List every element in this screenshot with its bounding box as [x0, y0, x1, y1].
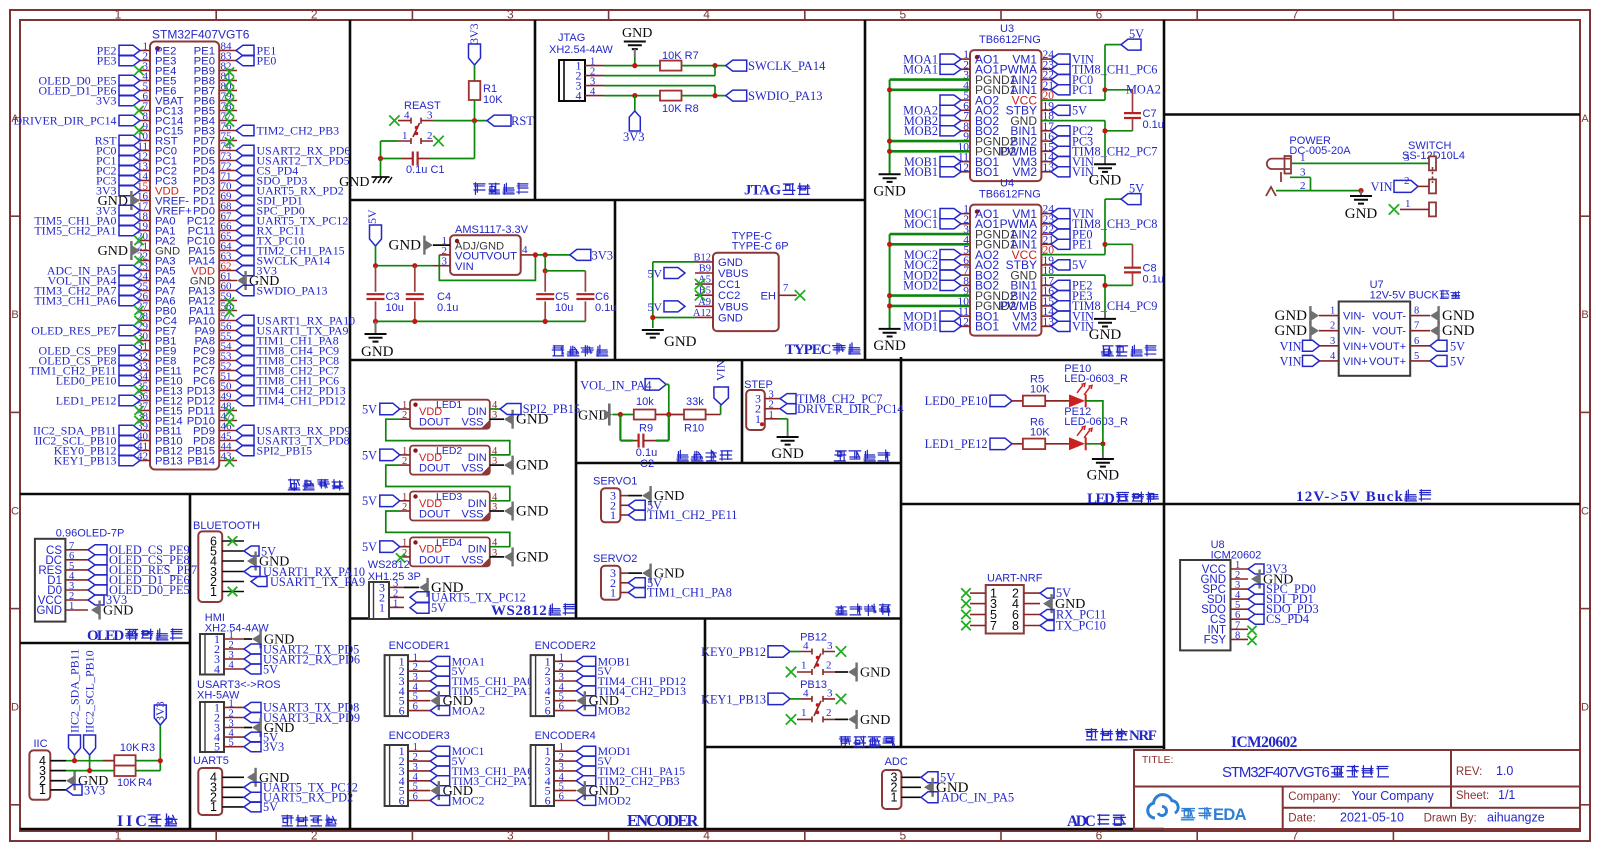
section label reset-circuit: [474, 183, 485, 195]
wire flag to PB12 pin4: [790, 651, 801, 653]
wire U4 GND pin: [1041, 274, 1105, 276]
ENCODER2 pin1 net flag MOB1: [576, 656, 596, 666]
svg-text:GND: GND: [578, 408, 608, 423]
U7 pin 1 VIN-: [1319, 315, 1339, 317]
U1 pin 56 net flag USART1_TX_PA9: [236, 325, 254, 336]
svg-text:4: 4: [229, 660, 235, 671]
svg-text:VOUT-: VOUT-: [1372, 326, 1406, 338]
svg-text:0.1u: 0.1u: [437, 302, 458, 314]
resistor R8: [660, 91, 682, 101]
svg-text:5V: 5V: [263, 662, 278, 676]
U7 pin6 5V flag: [1430, 340, 1447, 351]
U1 pin 44 net flag SPI2_PB15: [236, 445, 254, 456]
svg-text:GND: GND: [1442, 323, 1475, 339]
svg-text:1: 1: [39, 783, 46, 797]
U4 left net flags: [940, 209, 961, 219]
junction PGND U3 b: [887, 139, 892, 144]
junction SDA: [72, 758, 77, 763]
svg-text:4: 4: [803, 640, 809, 652]
svg-text:MOA2: MOA2: [452, 704, 486, 718]
ADC pin1 net flag ADC_IN_PA5: [921, 792, 938, 803]
svg-text:TB6612FNG: TB6612FNG: [979, 189, 1041, 201]
svg-text:LED2: LED2: [436, 445, 462, 457]
WS2812 connector pin3 GND: [404, 586, 419, 588]
svg-text:3V3: 3V3: [84, 783, 105, 797]
svg-text:3V3: 3V3: [96, 94, 117, 108]
U8 pin 5 net flag SDO_PD3: [1248, 604, 1264, 614]
svg-text:VSS: VSS: [461, 463, 483, 475]
svg-text:GND: GND: [1345, 206, 1378, 222]
ground GND (LED indicator): [1102, 454, 1104, 459]
ENCODER3 pin5 GND flag: [430, 786, 438, 796]
U1 pin 28 no-connect: [134, 316, 143, 325]
svg-text:XH2.54-4AW: XH2.54-4AW: [549, 44, 613, 56]
svg-text:4: 4: [576, 89, 582, 103]
svg-text:VSS: VSS: [461, 417, 483, 429]
UART-NRF pin4 GND flag: [1043, 599, 1051, 609]
no-connect X PB12 pin1: [786, 667, 796, 677]
U1 pin 72 net flag CS_PD4: [236, 165, 254, 176]
U1 pin 35 no-connect: [134, 386, 143, 395]
U3 PGND wires to ground: [890, 78, 970, 81]
no-connect X U8 pin 8: [1247, 636, 1256, 645]
svg-text:10K: 10K: [1030, 426, 1050, 438]
svg-text:0.1u: 0.1u: [1143, 273, 1164, 285]
svg-text:ENCODER2: ENCODER2: [535, 640, 596, 652]
ENCODER1 pin6 net flag MOA2: [430, 706, 450, 716]
svg-text:GND: GND: [1089, 327, 1122, 343]
U1 pin 20 no-connect: [134, 236, 143, 245]
svg-text:GND: GND: [516, 458, 549, 474]
ENCODER4 pin2 net flag 5V: [576, 756, 596, 766]
wire LED2 DOUT daisy chain: [386, 465, 510, 501]
U1 pin 60 net flag SWDIO_PA13: [236, 285, 254, 296]
U1 pin 41 net flag KEY0_PB12: [119, 445, 140, 456]
svg-text:3: 3: [427, 110, 433, 122]
LED2 VSS wire to GND: [490, 464, 504, 466]
UART-NRF pin 3 (left): [970, 603, 986, 605]
wire 5V down to rail: [375, 246, 377, 266]
svg-text:TX_PC10: TX_PC10: [1056, 619, 1106, 633]
svg-text:5V: 5V: [1072, 104, 1087, 118]
svg-text:GND: GND: [873, 183, 906, 199]
U1 right pin numbers 84-43: [221, 41, 233, 463]
svg-text:1: 1: [1330, 306, 1335, 317]
junction gnd rail C3: [373, 319, 378, 324]
svg-text:3: 3: [1404, 152, 1410, 164]
U8 pin 1 net flag 3V3: [1248, 564, 1264, 574]
OLED pin 5 net flag OLED_RES_PE7: [88, 565, 107, 575]
ground GND (LDO): [365, 334, 387, 342]
resistor R4: [114, 766, 135, 776]
svg-text:12V->5V Buck: 12V->5V Buck: [1296, 489, 1403, 505]
svg-text:JTAG: JTAG: [558, 32, 585, 44]
junction node RST: [472, 118, 477, 123]
U1 pin 30 no-connect: [134, 336, 143, 345]
svg-text:7: 7: [783, 283, 788, 294]
U1 pin 19 net flag TIM5_CH2_PA1: [119, 225, 140, 236]
ENCODER3 pin6 net flag MOC2: [430, 796, 450, 806]
wire TYPE-C gnd vertical: [652, 262, 654, 328]
net flag RST: [487, 115, 511, 126]
svg-text:VM2: VM2: [1012, 320, 1037, 334]
wire daisy chain into LED4 DIN: [490, 546, 510, 548]
junction SWDIO: [712, 93, 717, 98]
svg-text:6: 6: [1414, 336, 1419, 347]
svg-text:MOC2: MOC2: [452, 794, 485, 808]
svg-text:VSS: VSS: [461, 509, 483, 521]
svg-text:LED1_PE12: LED1_PE12: [56, 394, 117, 408]
WS2812 connector pin2 UART5_TX_PC12: [410, 592, 429, 603]
svg-text:5V: 5V: [1450, 355, 1465, 369]
svg-text:AMS1117-3.3V: AMS1117-3.3V: [455, 224, 529, 236]
svg-text:TIM1_CH1_PA8: TIM1_CH1_PA8: [647, 586, 732, 600]
junction (JTAG pin1/GND): [632, 63, 637, 68]
wire R3 to 3V3: [136, 760, 161, 762]
wire U3 cap branch: [1105, 89, 1133, 91]
power flag 5V (LED4): [380, 541, 400, 553]
svg-text:10u: 10u: [386, 302, 404, 314]
svg-text:VIN: VIN: [455, 261, 474, 273]
U1 pin 10 net flag RST: [119, 135, 140, 146]
U1 pin 48 no-connect: [225, 407, 234, 416]
svg-text:5V: 5V: [362, 494, 377, 508]
resistor R7: [660, 61, 682, 71]
U1 pin 51 net flag TIM8_CH1_PC6: [236, 375, 254, 386]
svg-text:TIM5_CH2_PA1: TIM5_CH2_PA1: [34, 224, 116, 238]
svg-text:3: 3: [827, 687, 833, 699]
svg-text:1: 1: [769, 410, 774, 421]
svg-text:SWCLK_PA14: SWCLK_PA14: [748, 59, 826, 73]
IC LED3 WS2812 body: [410, 492, 490, 521]
svg-text:1.0: 1.0: [1496, 764, 1513, 778]
net flag 3V3 output: [570, 249, 591, 260]
U7 pin 6 VOUT+: [1410, 345, 1430, 347]
svg-text:GND: GND: [718, 312, 743, 324]
U4 pin names and numbers: [958, 204, 1055, 334]
wire JTAG pin1 to R7: [604, 65, 660, 67]
svg-text:EH: EH: [760, 291, 776, 303]
no-connect X PB13 pin1: [786, 714, 796, 724]
HMI pin2 net flag USART2_TX_PD5: [244, 644, 261, 654]
svg-text:5V: 5V: [1072, 258, 1087, 272]
junction gnd rail C5: [543, 319, 548, 324]
wire flag to R5: [1012, 400, 1023, 402]
svg-text:1: 1: [393, 598, 398, 609]
svg-text:6: 6: [399, 704, 405, 718]
LED3 VSS wire to GND: [490, 510, 504, 512]
U3 pin names and numbers: [958, 49, 1055, 179]
IC U1 STM32F407VGT6 body: [150, 42, 219, 470]
wire PB12 pin2 to GND: [835, 671, 848, 673]
U1 pin 7 no-connect: [134, 106, 143, 115]
XH-5AW pin4 5V flag: [244, 732, 261, 742]
wire JTAG pin2 up to SWCLK net: [604, 75, 715, 77]
svg-text:Sheet:: Sheet:: [1456, 790, 1489, 802]
svg-text:3: 3: [507, 8, 514, 22]
junction SCL: [87, 768, 92, 773]
U3 right net flags: [1051, 54, 1070, 64]
TYPE-C pin A9 VBUS: [695, 305, 713, 307]
svg-text:8: 8: [1012, 619, 1019, 633]
power flag 5V (U3 STBY): [1051, 105, 1070, 115]
power flag 5V (LED3): [380, 495, 400, 507]
resistor R5: [1023, 396, 1045, 407]
U7 pin5 5V flag: [1430, 355, 1447, 366]
wire PB13 pin2 to GND: [835, 718, 848, 720]
svg-text:GND: GND: [103, 604, 133, 619]
IC LED4 WS2812 body: [410, 537, 490, 566]
svg-text:GND: GND: [389, 238, 422, 254]
no-connect X on LED4 DOUT: [396, 553, 405, 562]
svg-text:DRIVER_DIR_PC14: DRIVER_DIR_PC14: [797, 402, 904, 416]
svg-text:TIM2_CH2_PB3: TIM2_CH2_PB3: [257, 124, 340, 138]
capacitor C1: [418, 158, 430, 160]
U7 pin 4 VIN+: [1319, 360, 1339, 362]
junction U3 VCC/cap: [1102, 87, 1107, 92]
svg-text:8: 8: [1235, 630, 1240, 641]
svg-text:0.1u: 0.1u: [595, 302, 616, 314]
no-connect X CC1: [695, 279, 705, 289]
U1 pin 59 no-connect: [225, 297, 234, 306]
svg-text:Your Company: Your Company: [1352, 789, 1435, 803]
svg-text:PC1: PC1: [1072, 83, 1093, 97]
section label serial-comm: [282, 815, 293, 826]
U1 right pin names: [187, 45, 215, 467]
ENCODER4 pin5 GND flag: [576, 786, 584, 796]
section label touch-key: [839, 737, 850, 748]
junction (JTAG pin4/3V3): [632, 93, 637, 98]
U1 pin 24 net flag VOL_IN_PA4: [119, 275, 140, 286]
svg-text:1: 1: [1405, 198, 1411, 210]
svg-text:4: 4: [803, 687, 809, 699]
svg-text:C: C: [11, 505, 19, 517]
U1 pin 15 net flag 3V3: [119, 185, 140, 196]
capacitor C (U4): [1132, 244, 1134, 267]
capacitor C6: [584, 271, 586, 292]
wire 3V3 stem (JTAG): [634, 96, 636, 111]
junction mid divider: [666, 412, 671, 417]
OLED pin 4 net flag OLED_D1_PE6: [88, 575, 107, 585]
section label main-chip: [288, 479, 300, 490]
svg-text:10K: 10K: [1030, 383, 1050, 395]
U1 pin 39 net flag IIC2_SDA_PB11: [119, 425, 140, 436]
power flag 3V3 (reset): [469, 44, 481, 65]
svg-text:SERVO2: SERVO2: [593, 553, 637, 565]
U1 pin 53 net flag TIM8_CH3_PC8: [236, 355, 254, 366]
U1 pin 40 net flag IIC2_SCL_PB10: [119, 435, 140, 446]
section label driver-circuit: [1101, 346, 1113, 356]
svg-text:1: 1: [115, 8, 122, 22]
capacitor C5: [544, 271, 546, 292]
wire R6 to LED: [1045, 443, 1069, 445]
junction 5V rail C4: [412, 263, 417, 268]
U1 pin 61 GND flag: [237, 276, 245, 286]
title block frame: [1134, 750, 1580, 829]
wire LED3 DOUT daisy chain: [386, 511, 510, 547]
U1 pin 26 net flag TIM3_CH1_PA6: [119, 295, 140, 306]
svg-text:3V3: 3V3: [263, 740, 284, 754]
svg-text:1: 1: [801, 660, 807, 672]
svg-text:33k: 33k: [686, 396, 704, 408]
UART-NRF pin 1 (left): [970, 592, 986, 594]
LED3 pin stubs: [400, 501, 410, 511]
svg-text:VIN: VIN: [1371, 180, 1393, 194]
no-connect X on REAST pin2: [433, 136, 443, 146]
svg-text:6: 6: [545, 704, 551, 718]
ENCODER2 pin5 GND flag: [576, 696, 584, 706]
UART-NRF pin 4 (right): [1024, 603, 1040, 605]
section label stepper-motor: [834, 451, 846, 461]
svg-text:C2: C2: [640, 458, 654, 470]
svg-text:R3: R3: [141, 742, 155, 754]
ground GND (U3 right): [1104, 156, 1106, 164]
power flag 5V (VBUS B9): [664, 268, 685, 279]
no-connect X PB12 pin3: [836, 646, 846, 656]
svg-text:5: 5: [899, 829, 906, 843]
svg-text:GND: GND: [1275, 308, 1308, 324]
ENCODER1 pin3 net flag TIM5_CH1_PA0: [430, 676, 450, 686]
STEP pin3 net flag TIM8_CH2_PC7: [780, 394, 796, 404]
U1 pin 66 net flag RX_PC11: [236, 225, 254, 236]
svg-text:FSY: FSY: [1204, 634, 1227, 646]
LED2 pin stubs: [400, 455, 410, 465]
U7 pin7 GND flag: [1430, 326, 1438, 336]
ADC pin3 5V flag: [921, 772, 938, 783]
svg-text:IIC: IIC: [117, 813, 147, 830]
svg-text:DRIVER_DIR_PC14: DRIVER_DIR_PC14: [13, 114, 116, 128]
wire R7 to SWCLK: [682, 65, 726, 67]
svg-text:GND: GND: [1442, 308, 1475, 324]
OLED pin2 3V3 flag: [88, 595, 104, 605]
svg-text:3V3: 3V3: [623, 130, 645, 144]
U1 pin 14 net flag PC3: [119, 175, 140, 186]
ENCODER2 pin4 net flag TIM4_CH2_PD13: [576, 686, 596, 696]
svg-text:VIN: VIN: [1280, 355, 1302, 369]
svg-text:VM2: VM2: [1012, 165, 1037, 179]
svg-text:A12: A12: [693, 308, 711, 319]
wire LED1 cathode to gnd rail: [1086, 443, 1103, 445]
svg-text:6: 6: [413, 702, 418, 713]
svg-text:PE3: PE3: [97, 54, 117, 68]
svg-text:GND: GND: [873, 338, 906, 354]
U1 pin 21 GND flag: [132, 246, 140, 256]
section label servo: [835, 606, 846, 615]
wire U3 cap bottom to gnd: [1105, 130, 1133, 132]
ENCODER4 pin3 net flag TIM2_CH1_PA15: [576, 766, 596, 776]
capacitor C3: [375, 266, 377, 292]
svg-text:NRF: NRF: [1129, 728, 1157, 744]
wire gnd rail stem: [375, 321, 377, 334]
svg-text:5V: 5V: [1129, 27, 1144, 41]
svg-text:MOB1: MOB1: [904, 165, 938, 179]
ground GND (power jack): [1360, 191, 1362, 196]
LED1 DIN wire: [490, 408, 500, 410]
HMI pin4 5V flag: [244, 664, 261, 674]
LED4 VSS wire to GND: [490, 556, 504, 558]
svg-text:ADC: ADC: [1067, 813, 1096, 830]
TYPE-C pin B12 GND: [695, 261, 713, 263]
svg-text:5: 5: [899, 8, 906, 22]
ENCODER1 pin2 net flag 5V: [430, 666, 450, 676]
U1 pin 12 net flag PC1: [119, 155, 140, 166]
svg-text:B: B: [1581, 309, 1588, 321]
HMI pin3 net flag USART2_RX_PD6: [244, 654, 261, 664]
U1 pin 57 net flag USART1_RX_PA10: [236, 315, 254, 326]
svg-text:UART-NRF: UART-NRF: [987, 573, 1043, 585]
svg-text:0.96OLED-7P: 0.96OLED-7P: [56, 528, 124, 540]
XH-5AW pin5 3V3 flag: [244, 742, 261, 752]
U1 pin 37 no-connect: [134, 406, 143, 415]
U4 PGND wires to ground: [890, 233, 970, 236]
U1 pin 80 no-connect: [225, 87, 234, 96]
U1 pin 33 net flag TIM1_CH2_PE11: [119, 365, 140, 376]
svg-text:ENCODER: ENCODER: [627, 811, 699, 830]
svg-text:6: 6: [545, 794, 551, 808]
svg-text:1: 1: [210, 585, 217, 599]
svg-text:10k: 10k: [636, 396, 654, 408]
svg-text:3V3: 3V3: [592, 248, 614, 262]
wire 3V3 to R1: [474, 65, 476, 81]
svg-text:12V-5V BUCK: 12V-5V BUCK: [1370, 290, 1440, 302]
SERVO1 pin3 GND flag: [628, 495, 642, 497]
svg-text:1: 1: [891, 791, 898, 805]
svg-text:OLED_RES_PE7: OLED_RES_PE7: [31, 324, 116, 338]
junction VOUT b: [543, 252, 548, 257]
svg-text:7: 7: [990, 619, 997, 633]
junction U4 gnd/cap: [1102, 283, 1107, 288]
svg-text:GND: GND: [860, 713, 890, 728]
junction R9 left: [618, 412, 623, 417]
U1 pin 55 net flag TIM1_CH1_PA8: [236, 335, 254, 346]
svg-text:5V: 5V: [365, 209, 379, 224]
U4 right net flags: [1051, 209, 1070, 219]
svg-text:MOB2: MOB2: [904, 124, 938, 138]
svg-text:DOUT: DOUT: [419, 417, 450, 429]
power flag 5V (VBUS A9): [664, 301, 685, 312]
svg-text:TIM3_CH1_PA6: TIM3_CH1_PA6: [34, 294, 116, 308]
junction PGND U3 a: [887, 87, 892, 92]
U1 pin 71 net flag SDO_PD3: [236, 175, 254, 186]
svg-text:VOUT-: VOUT-: [1372, 311, 1406, 323]
svg-text:BO1: BO1: [975, 165, 999, 179]
junction VOUT a: [533, 252, 538, 257]
svg-text:5V: 5V: [263, 800, 278, 814]
wire SDA to R3: [103, 760, 114, 762]
svg-text:5V: 5V: [362, 402, 377, 416]
svg-text:R4: R4: [138, 777, 152, 789]
svg-text:GND: GND: [771, 446, 804, 462]
no-connect X UART-NRF pin 3: [961, 599, 971, 609]
UART-NRF pin 6 (right): [1024, 614, 1040, 616]
wire U4 cap bottom to gnd: [1105, 284, 1133, 286]
U1 pin 63 net flag SWCLK_PA14: [236, 255, 254, 266]
svg-text:SWDIO_PA13: SWDIO_PA13: [748, 89, 823, 103]
ENCODER1 pin5 GND flag: [430, 696, 438, 706]
HMI pin1 GND flag: [244, 638, 252, 640]
svg-text:GND: GND: [1087, 468, 1120, 484]
svg-text:5V: 5V: [647, 266, 662, 280]
U1 pin 29 net flag OLED_RES_PE7: [119, 325, 140, 336]
U1 pin 49 net flag TIM4_CH1_PD12: [236, 395, 254, 406]
svg-text:10K R7: 10K R7: [662, 50, 699, 62]
TYPE-C pin A5 CC1: [695, 283, 713, 285]
wire 3V3 branch down: [544, 255, 546, 271]
U8 pin 3 net flag SPC_PD0: [1248, 584, 1264, 594]
svg-text:MOD2: MOD2: [903, 279, 938, 293]
svg-text:Company:: Company:: [1288, 791, 1340, 803]
wire jack pin2 to ground: [1276, 190, 1361, 192]
